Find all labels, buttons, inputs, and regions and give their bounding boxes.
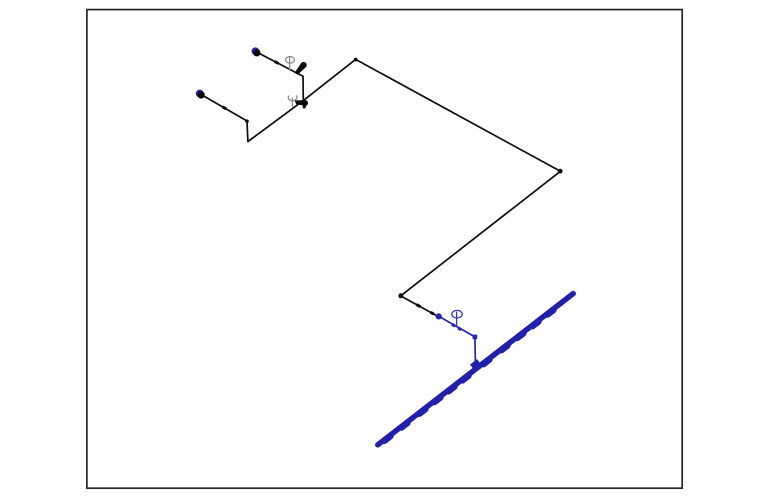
coupling on segment C2-end bbox=[417, 305, 421, 307]
wire branch A bbox=[200, 94, 303, 142]
connector dot on blue branch bbox=[436, 313, 442, 319]
elbow fitting on blue branch bbox=[473, 335, 478, 340]
elbow fitting C1 bbox=[558, 169, 563, 174]
fitting blob at J1 bbox=[295, 62, 307, 75]
coupling before blue dot bbox=[431, 312, 434, 314]
blue branch pipe bbox=[439, 316, 476, 368]
elbow fitting C2 bbox=[398, 293, 403, 298]
valve symbol at J2 (gray circle with stem) bbox=[288, 95, 297, 107]
coupling on branch A bbox=[223, 107, 227, 109]
elbow fitting branch A bbox=[245, 119, 249, 123]
viewport border bbox=[87, 10, 682, 489]
elbow fitting apex bbox=[354, 58, 358, 62]
valve symbol on blue branch (circle with stem) bbox=[452, 310, 462, 326]
couplings on blue branch bbox=[452, 324, 461, 329]
wire main run bbox=[303, 59, 560, 316]
coupling on branch B bbox=[275, 61, 279, 63]
wire blue branch bbox=[439, 316, 476, 368]
wire branch B bbox=[256, 52, 303, 101]
fitting blob at J2 bbox=[295, 100, 308, 106]
tee fitting into main bbox=[472, 362, 479, 367]
open end cap B bbox=[252, 47, 261, 56]
pipe run: branch A from open end to tee J2 bbox=[200, 52, 560, 316]
thick blue main pipe bbox=[378, 294, 573, 445]
coupling nubs on black pipes bbox=[223, 61, 434, 314]
couplings on main bbox=[385, 310, 554, 441]
open end cap A bbox=[196, 90, 205, 99]
valve symbol at J1 (gray circle with stem) bbox=[286, 57, 295, 71]
